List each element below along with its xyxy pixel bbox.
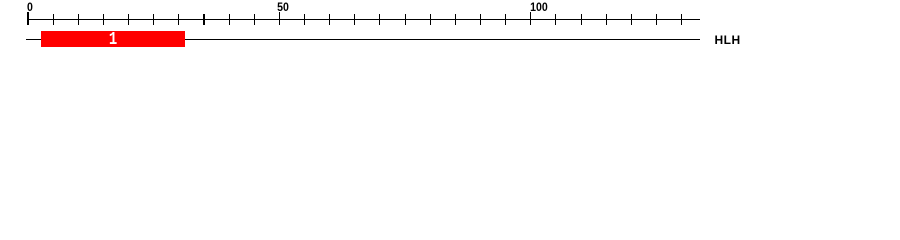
minor tick 95 [505, 14, 506, 26]
minor tick 85 [455, 14, 456, 26]
minor tick 20 [128, 14, 129, 26]
minor tick 90 [480, 14, 481, 26]
minor tick 15 [103, 14, 104, 26]
minor tick 120 [631, 14, 632, 26]
ruler label 50 [277, 1, 289, 13]
ruler label 100 [530, 1, 548, 13]
domain box match 1 [41, 31, 185, 47]
minor tick 70 [379, 14, 380, 26]
minor tick 40 [229, 14, 230, 26]
ruler line [28, 19, 700, 20]
minor tick 115 [606, 14, 607, 26]
minor tick 30 [178, 14, 179, 26]
minor tick 10 [78, 14, 79, 26]
minor tick 65 [354, 14, 355, 26]
major tick 0 [27, 12, 28, 25]
minor tick 80 [430, 14, 431, 26]
minor tick 45 [254, 14, 255, 26]
minor tick 35 [203, 14, 204, 26]
sequence line [26, 39, 701, 40]
minor tick 60 [329, 14, 330, 26]
major tick 50 [279, 12, 280, 25]
minor tick 55 [304, 14, 305, 26]
minor tick 25 [153, 14, 154, 26]
ruler label 0 [27, 1, 33, 13]
minor tick 75 [405, 14, 406, 26]
minor tick 5 [53, 14, 54, 26]
minor tick 105 [555, 14, 556, 26]
domain number 1 [109, 31, 117, 50]
minor tick 130 [681, 14, 682, 26]
label HLH [715, 34, 741, 46]
minor tick 110 [581, 14, 582, 26]
major tick 100 [530, 12, 531, 25]
minor tick 125 [656, 14, 657, 26]
